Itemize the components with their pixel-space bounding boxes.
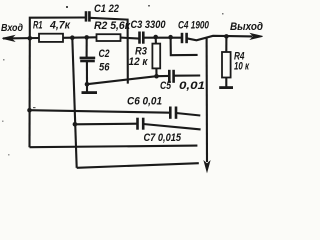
svg-text:С6 0,01: С6 0,01 (127, 96, 162, 108)
switch wiper arrow (204, 162, 209, 172)
capacitor C5 (168, 70, 171, 83)
svg-text:10 к: 10 к (234, 61, 250, 73)
svg-text:С7 0,015: С7 0,015 (144, 132, 182, 144)
wire switch wiper bus (206, 38, 208, 162)
wire R4 top lead (225, 36, 227, 52)
wire C6 to contact 3 (176, 113, 200, 116)
wire C2 top lead (86, 37, 88, 57)
resistor R4 (222, 52, 231, 78)
resistor R3 (152, 44, 160, 69)
ground under C2 (86, 84, 88, 92)
svg-text:С5: С5 (160, 80, 172, 92)
node dot C7/vertical2 (73, 122, 78, 127)
svg-text:С4 1900: С4 1900 (178, 20, 210, 32)
output arrow (251, 34, 263, 39)
node dot C2/main (84, 35, 89, 40)
wire R3 bottom lead (155, 68, 157, 76)
svg-text:Выход: Выход (230, 21, 263, 33)
svg-text:Вход: Вход (1, 23, 23, 34)
wire input line (3, 37, 39, 40)
node dot R3/main (153, 35, 158, 40)
input arrow (3, 36, 15, 41)
wire C4 to output (187, 36, 253, 41)
capacitor C3 (138, 32, 141, 44)
resistor R1 (39, 34, 63, 42)
wire C7 line left (75, 123, 137, 126)
wire R4 bottom lead (225, 78, 227, 88)
node dot R3 bottom / rail (154, 74, 159, 79)
wire grounded rail / C5 line (87, 76, 169, 84)
svg-text:С2: С2 (99, 48, 110, 60)
wire C3/C4 node stub (contact 1) (171, 37, 198, 55)
speck (33, 107, 36, 108)
capacitor C1 (85, 11, 88, 21)
wire bottom contact line (contact 6) (77, 163, 199, 168)
wire R2 to C3 (121, 38, 140, 39)
svg-text:С3 3300: С3 3300 (131, 19, 167, 31)
wire C6 line (30, 110, 171, 113)
svg-text:4,7к: 4,7к (49, 20, 71, 32)
wire R3 top lead (155, 37, 157, 44)
svg-text:0,01: 0,01 (179, 80, 205, 92)
wire C2 bottom lead (86, 61, 88, 84)
svg-text:56: 56 (99, 62, 110, 74)
node dot stub/main (168, 35, 173, 40)
capacitor C2 (80, 57, 96, 60)
resistor R2 (97, 34, 121, 41)
capacitor C7 (136, 118, 139, 130)
svg-text:R1: R1 (33, 20, 43, 32)
capacitor C4 (181, 33, 184, 43)
node dot C2 bottom / rail (85, 82, 90, 87)
wire C1 branch riser (left) (30, 18, 86, 39)
wire vertical1 below main line (28, 38, 30, 147)
svg-text:12 к: 12 к (129, 56, 149, 68)
wire C1 to node B drop (89, 18, 127, 84)
node dot R4/output (224, 34, 229, 39)
wire C3 to C4 (143, 37, 181, 39)
node dot C6/vertical1 (27, 108, 32, 113)
node dot input/vertical1 (28, 36, 33, 41)
ground under R4 (219, 86, 233, 89)
svg-text:С1 22: С1 22 (94, 3, 119, 15)
svg-text:R2 5,6к: R2 5,6к (94, 20, 131, 32)
wire R1 to R2 (63, 36, 97, 39)
wire vertical2 (R1/R2 node down) (72, 38, 76, 168)
wire C7 to contact 4 (143, 124, 200, 129)
node dot vertical2/main (70, 35, 75, 40)
capacitor C6 (169, 107, 172, 119)
wire C5 to contact 2 (174, 74, 201, 76)
wire line4 (contact 5) (30, 146, 198, 148)
